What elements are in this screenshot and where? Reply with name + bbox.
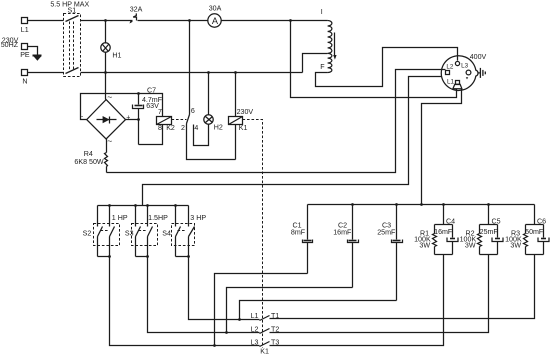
svg-text:~: ~ bbox=[107, 136, 112, 146]
svg-text:T1: T1 bbox=[271, 312, 279, 320]
svg-text:25mF: 25mF bbox=[480, 228, 499, 236]
svg-text:3W: 3W bbox=[465, 241, 476, 249]
wire R4 to plug L2 bbox=[107, 70, 446, 173]
ammeter 30A bbox=[208, 5, 222, 28]
resistor R1 capacitor C4 bbox=[414, 205, 458, 255]
svg-text:I: I bbox=[321, 8, 323, 16]
svg-text:3 HP: 3 HP bbox=[190, 214, 206, 222]
svg-text:C4: C4 bbox=[446, 217, 455, 225]
contactor K1 contact L3-T3 bbox=[251, 339, 280, 347]
svg-text:L1: L1 bbox=[21, 26, 29, 34]
wire mains to plug L1 bbox=[291, 21, 457, 98]
svg-text:PE: PE bbox=[20, 51, 30, 59]
svg-text:T2: T2 bbox=[271, 325, 279, 333]
svg-text:L3: L3 bbox=[461, 63, 469, 70]
arrow on coil bbox=[333, 33, 336, 60]
svg-text:C5: C5 bbox=[492, 217, 501, 225]
node H1 top bbox=[104, 19, 107, 22]
svg-text:K1: K1 bbox=[260, 348, 269, 354]
svg-text:F: F bbox=[320, 63, 325, 71]
svg-text:A: A bbox=[212, 16, 219, 26]
svg-text:H1: H1 bbox=[112, 51, 121, 59]
link K2 to contact bbox=[172, 119, 187, 121]
resistor R4 bbox=[74, 139, 107, 173]
svg-text:16mF: 16mF bbox=[434, 228, 453, 236]
wire bridge plus to C7 bbox=[126, 119, 139, 121]
svg-text:230V: 230V bbox=[237, 108, 254, 116]
svg-text:T3: T3 bbox=[271, 339, 279, 347]
svg-text:H2: H2 bbox=[214, 123, 223, 131]
wire S4 to L1 row bbox=[189, 257, 260, 320]
node N-H1 bbox=[104, 71, 107, 74]
rectifier bridge bbox=[81, 92, 130, 146]
svg-text:1.5HP: 1.5HP bbox=[148, 214, 168, 222]
earth at socket bbox=[478, 68, 485, 78]
wire S3 to L2 row bbox=[148, 257, 260, 333]
capacitor C2 bbox=[333, 205, 358, 288]
node rail dots bbox=[108, 204, 177, 207]
svg-text:8mF: 8mF bbox=[291, 229, 306, 237]
wire S2 to L3 row bbox=[110, 257, 260, 346]
ground bbox=[33, 55, 42, 61]
link K1 to bottom contacts bbox=[243, 120, 263, 348]
svg-text:6K8 50W: 6K8 50W bbox=[74, 158, 103, 166]
svg-text:4: 4 bbox=[194, 124, 198, 132]
switch S1 bbox=[64, 6, 81, 76]
terminal L1 bbox=[21, 18, 29, 35]
wire L1 rail bbox=[28, 20, 328, 22]
terminal PE bbox=[20, 44, 30, 59]
svg-text:25mF: 25mF bbox=[377, 229, 396, 237]
svg-text:7: 7 bbox=[158, 108, 162, 116]
svg-text:S4: S4 bbox=[162, 229, 171, 237]
inductor coil bbox=[320, 8, 332, 72]
svg-text:S3: S3 bbox=[125, 229, 134, 237]
wire bridge minus to K2 bbox=[81, 94, 163, 120]
node C2-L2 bbox=[225, 331, 228, 334]
svg-text:6: 6 bbox=[191, 107, 195, 115]
node C7 top bbox=[137, 92, 140, 95]
node rail feed bbox=[420, 203, 423, 206]
lamp H1 bbox=[101, 21, 122, 60]
svg-text:16mF: 16mF bbox=[333, 229, 352, 237]
capacitor C3 bbox=[377, 205, 402, 301]
node C7 plus bbox=[137, 118, 140, 121]
svg-text:30A: 30A bbox=[209, 5, 222, 13]
switch S3 bbox=[125, 206, 168, 258]
node rail RC2 bbox=[487, 203, 490, 206]
node rail RC1 bbox=[442, 203, 445, 206]
wire RC2 to T2 bbox=[270, 255, 489, 333]
wire pin6 riser bbox=[189, 21, 191, 115]
relay K2 bbox=[157, 108, 175, 132]
node rail C3 bbox=[395, 203, 398, 206]
label 230V 50HZ bbox=[1, 37, 19, 49]
node rail C2 bbox=[351, 203, 354, 206]
wire plug shell to switch rail bbox=[143, 77, 442, 206]
wire C2 to L2 row bbox=[227, 288, 353, 333]
switch rail bbox=[98, 205, 189, 207]
svg-text:S1: S1 bbox=[68, 6, 77, 14]
svg-text:8: 8 bbox=[158, 124, 162, 132]
svg-text:1 HP: 1 HP bbox=[112, 214, 128, 222]
svg-text:50mF: 50mF bbox=[525, 228, 544, 236]
node C3-L1 bbox=[238, 318, 241, 321]
node plug L1 riser bbox=[289, 19, 292, 22]
svg-text:N: N bbox=[22, 77, 27, 85]
svg-text:3W: 3W bbox=[510, 241, 521, 249]
wire pin2 to K1 bottom bbox=[187, 124, 236, 160]
wire plug L1 down to rail bbox=[422, 89, 462, 205]
switch S2 bbox=[83, 206, 128, 258]
resistor R3 capacitor C6 bbox=[505, 205, 549, 255]
svg-text:50HZ: 50HZ bbox=[1, 41, 19, 49]
wire C1 to L3 row bbox=[215, 274, 308, 346]
capacitor C1 bbox=[291, 205, 313, 274]
svg-text:3W: 3W bbox=[419, 241, 430, 249]
lamp H2 bbox=[204, 73, 223, 132]
breaker 32A bbox=[130, 5, 143, 23]
wire pin4 to H2 bbox=[194, 125, 209, 146]
node N-H2 bbox=[207, 71, 210, 74]
svg-text:C7: C7 bbox=[147, 87, 156, 95]
resistor R2 capacitor C5 bbox=[460, 205, 503, 255]
svg-text:S2: S2 bbox=[83, 229, 92, 237]
node N-K1 bbox=[234, 71, 237, 74]
svg-text:400V: 400V bbox=[470, 53, 487, 61]
wire RC3 to T1 bbox=[270, 255, 535, 319]
contactor K1 contact L2-T2 bbox=[251, 325, 280, 333]
relay K1 bbox=[229, 73, 254, 160]
svg-text:K1: K1 bbox=[239, 124, 248, 132]
capacitor C7 bbox=[133, 87, 163, 145]
wire F to plug L3 bbox=[316, 48, 458, 87]
svg-text:L2: L2 bbox=[446, 64, 454, 71]
svg-text:+: + bbox=[126, 114, 130, 121]
svg-text:32A: 32A bbox=[130, 5, 143, 13]
wire RC1 to T3 bbox=[270, 255, 444, 346]
svg-text:L3: L3 bbox=[251, 339, 259, 347]
svg-text:L1: L1 bbox=[447, 78, 455, 85]
node pin6 riser bbox=[188, 19, 191, 22]
terminal N bbox=[22, 70, 28, 86]
switch S4 bbox=[162, 206, 206, 258]
wire H1 to bridge bbox=[105, 53, 107, 100]
wire PE to earth bbox=[28, 47, 38, 55]
svg-text:K2: K2 bbox=[166, 124, 175, 132]
capacitor rail bbox=[308, 204, 535, 206]
svg-text:C6: C6 bbox=[537, 217, 546, 225]
wire N rail bbox=[28, 54, 328, 73]
node C1-L3 bbox=[213, 344, 216, 347]
contact K2 6-2-4 bbox=[181, 107, 198, 132]
svg-text:L2: L2 bbox=[251, 325, 259, 333]
wire C7 to K2 pin8 bbox=[139, 125, 163, 145]
contactor K1 contact L1-T1 bbox=[251, 312, 280, 320]
wire C3 to L1 row bbox=[240, 301, 397, 320]
svg-text:L1: L1 bbox=[251, 312, 259, 320]
svg-text:2: 2 bbox=[181, 124, 185, 132]
socket 400V bbox=[441, 53, 486, 91]
